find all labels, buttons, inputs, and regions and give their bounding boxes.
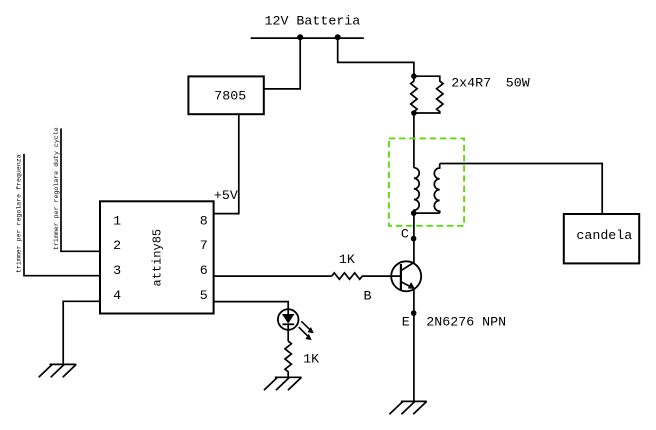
node dot resistor top — [411, 73, 417, 79]
wire rail to 2x4R7 resistors — [338, 38, 414, 76]
svg-text:2N6276 NPN: 2N6276 NPN — [426, 315, 506, 330]
svg-text:C: C — [401, 226, 409, 241]
svg-text:2: 2 — [113, 238, 121, 253]
node dot emitter E — [411, 310, 417, 316]
ground middle (LED) — [264, 377, 302, 390]
node junction dot on rail (to 7805) — [297, 34, 303, 40]
wire trimmer frequenza leader line — [24, 154, 100, 276]
wire pin 6 to base resistor — [214, 275, 332, 277]
transistor Q1 2N6276 — [391, 261, 421, 291]
resistor R3 1K LED zigzag vertical — [285, 341, 291, 377]
wire emitter down to ground — [413, 289, 415, 402]
ground right (emitter) — [389, 401, 426, 414]
svg-text:7805: 7805 — [214, 89, 246, 104]
svg-text:2x4R7: 2x4R7 — [451, 75, 491, 90]
svg-text:8: 8 — [200, 213, 208, 228]
wire rail to 7805 input — [264, 38, 300, 89]
ground left — [39, 364, 76, 377]
LED light arrows — [301, 321, 310, 330]
node dot collector C — [411, 236, 417, 242]
wire collector from transformer junction down — [413, 213, 415, 263]
load box candela — [564, 214, 639, 263]
svg-text:50W: 50W — [506, 75, 530, 90]
svg-text:5: 5 — [200, 288, 208, 303]
svg-text:trimmer per regolare frequenza: trimmer per regolare frequenza — [16, 154, 23, 273]
resistor R1b 2x4R7 right zigzag — [414, 76, 443, 113]
wire resistors to transformer primary — [413, 113, 415, 168]
svg-text:trimmer per regolare duty cycl: trimmer per regolare duty cycle — [53, 127, 60, 250]
resistor R2 1K base zigzag — [332, 273, 363, 279]
svg-text:3: 3 — [113, 263, 121, 278]
svg-text:+5V: +5V — [214, 188, 238, 203]
node junction dot on rail (to resistors) — [335, 34, 341, 40]
wire coil bottoms tied together — [414, 212, 440, 214]
wire pin 5 to LED — [214, 302, 289, 310]
svg-text:12V Batteria: 12V Batteria — [265, 13, 361, 28]
ic U1 attiny85 box — [100, 201, 214, 313]
wire resistor to transistor base — [362, 275, 401, 277]
svg-text:candela: candela — [576, 228, 632, 243]
node dot coil bottom junction — [411, 210, 417, 216]
inductor L1 transformer primary coil — [414, 168, 419, 213]
svg-text:6: 6 — [200, 263, 208, 278]
svg-text:1K: 1K — [303, 351, 319, 366]
inductor L2 transformer secondary coil — [434, 164, 439, 214]
wire battery rail — [251, 37, 364, 39]
diode D1 LED — [278, 309, 314, 341]
transformer highlight green dashed box — [389, 138, 464, 225]
svg-text:B: B — [364, 288, 372, 303]
regulator U2 7805 box — [188, 76, 263, 114]
wire trimmer duty leader line — [61, 128, 100, 251]
wire 7805 output to attiny85 pin 8 — [214, 114, 239, 213]
svg-text:4: 4 — [113, 288, 121, 303]
resistor R1a 2x4R7 left zigzag — [411, 76, 417, 113]
svg-text:attiny85: attiny85 — [151, 229, 165, 287]
svg-text:1: 1 — [113, 213, 121, 228]
wire secondary to candela — [440, 164, 603, 215]
node dot resistor bottom — [411, 110, 417, 116]
svg-text:7: 7 — [200, 238, 208, 253]
wire pin 4 to ground — [63, 301, 100, 364]
svg-text:1K: 1K — [339, 252, 355, 267]
svg-text:E: E — [402, 315, 410, 330]
